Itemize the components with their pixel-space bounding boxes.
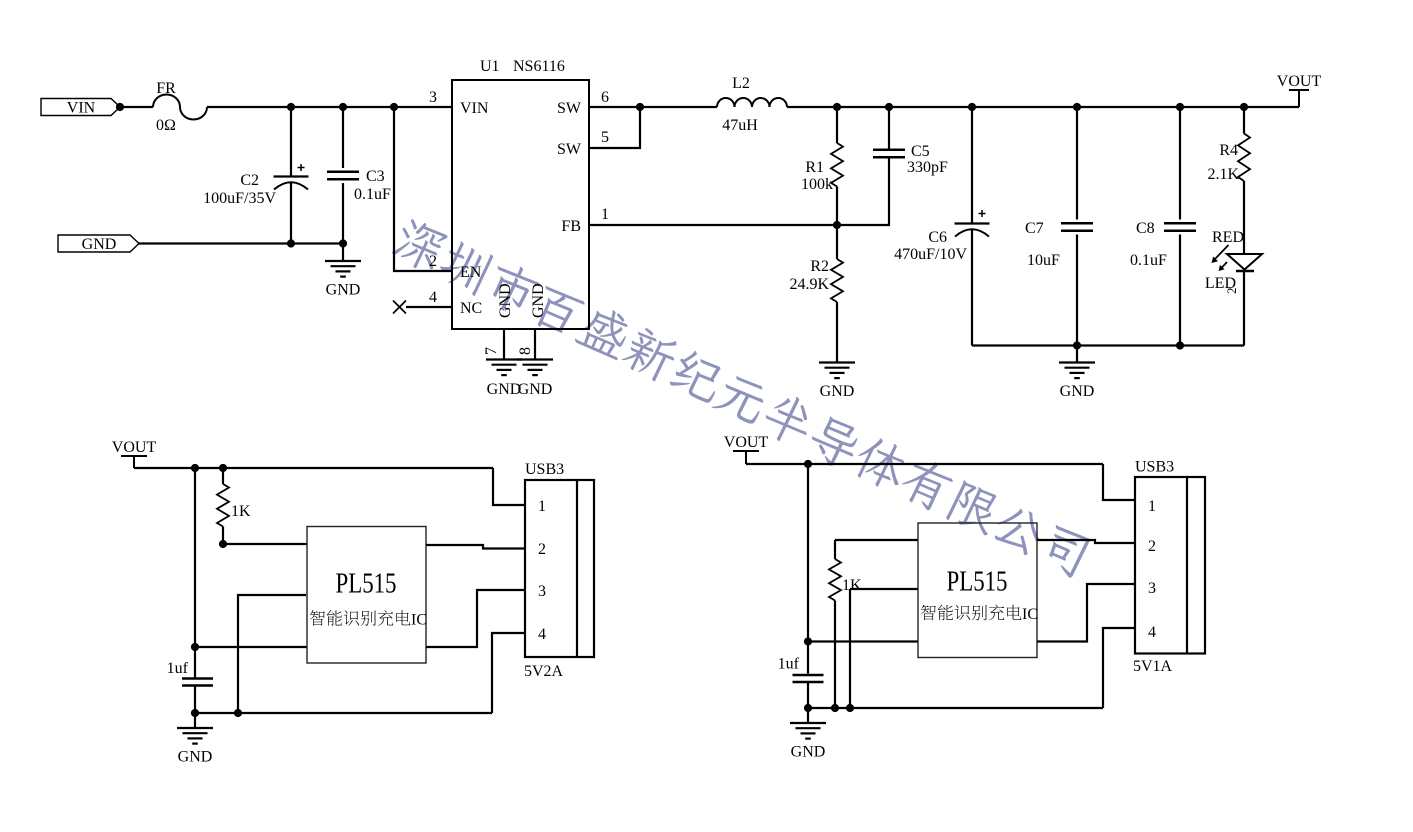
label 智能识别充电IC (left) bbox=[310, 610, 427, 628]
svg-text:C7: C7 bbox=[1025, 220, 1044, 237]
resistor R2 bbox=[831, 259, 843, 302]
svg-text:GND: GND bbox=[820, 383, 855, 400]
wire gnd rail bbox=[139, 242, 343, 244]
resistor R1 bbox=[831, 143, 843, 187]
svg-text:IC: IC bbox=[411, 612, 427, 629]
wire PL515 to gnd branch bbox=[238, 595, 306, 713]
wire PL515 mid pin bbox=[850, 588, 918, 590]
junction at VIN port bbox=[116, 103, 124, 111]
LED LED2 (diode) bbox=[1227, 254, 1262, 270]
wire PL515 to USB2 pin2 bbox=[1037, 540, 1135, 543]
wire VIN to fuse bbox=[120, 106, 153, 108]
svg-text:1K: 1K bbox=[231, 503, 251, 520]
junction mid gnd bbox=[846, 704, 854, 712]
svg-text:4: 4 bbox=[1148, 624, 1156, 641]
svg-text:R4: R4 bbox=[1219, 142, 1238, 159]
svg-text:1: 1 bbox=[538, 498, 546, 515]
capacitor 1uf (left) bbox=[182, 679, 213, 686]
ground symbol pin8 bbox=[517, 360, 553, 376]
connector USB3 (left, 5V2A) bbox=[525, 480, 594, 657]
wire FB bbox=[589, 224, 837, 226]
junction C3 bottom bbox=[339, 239, 347, 247]
wire bottom gnd rail left section bbox=[195, 712, 492, 714]
junction 1K bottom bbox=[219, 540, 227, 548]
junction pin branch right bbox=[804, 637, 812, 645]
fuse FR 0ohm bbox=[153, 94, 207, 119]
wire 1K bottom bbox=[222, 527, 224, 545]
svg-text:PL515: PL515 bbox=[947, 567, 1008, 598]
junction C8 bottom bbox=[1176, 341, 1184, 349]
wire gnd stem left section bbox=[194, 713, 196, 728]
wire gnd stem output bbox=[1076, 346, 1078, 363]
svg-text:GND: GND bbox=[497, 283, 514, 318]
junction C7 bottom bbox=[1073, 341, 1081, 349]
junction C3 top bbox=[339, 103, 347, 111]
svg-text:L2: L2 bbox=[732, 75, 750, 92]
wire EN branch bbox=[394, 107, 452, 271]
capacitor C7 bbox=[1061, 223, 1093, 231]
ground symbol output bbox=[1059, 363, 1095, 379]
svg-text:470uF/10V: 470uF/10V bbox=[894, 246, 967, 263]
svg-text:PL515: PL515 bbox=[336, 569, 397, 600]
svg-text:GND: GND bbox=[530, 283, 547, 318]
junction cap gnd bbox=[191, 709, 199, 717]
wire FB to R2 bbox=[836, 225, 838, 259]
wire 1K top stub bbox=[834, 540, 836, 559]
svg-text:1: 1 bbox=[601, 206, 609, 223]
ground symbol R2 bbox=[819, 363, 855, 379]
junction C2 top bbox=[287, 103, 295, 111]
svg-text:C6: C6 bbox=[928, 229, 947, 246]
wire vout rail left section bbox=[134, 467, 493, 469]
wire C8 to output gnd rail bbox=[1179, 235, 1181, 346]
capacitor C2 (polarized) bbox=[274, 175, 309, 177]
op-amp U1 NS6116 (IC body) bbox=[452, 80, 589, 329]
junction C6 top bbox=[968, 103, 976, 111]
wire mid pin to gnd bbox=[849, 589, 851, 708]
svg-text:2: 2 bbox=[538, 541, 546, 558]
ground symbol right section bbox=[790, 723, 826, 739]
svg-text:100k: 100k bbox=[801, 176, 833, 193]
wire pin7 to ground bbox=[503, 329, 505, 360]
capacitor C5 bbox=[873, 150, 905, 158]
wire pin8 to ground bbox=[534, 329, 536, 360]
ground symbol left section bbox=[177, 728, 213, 744]
port VIN bbox=[41, 99, 120, 116]
wire R2 to ground bbox=[836, 302, 838, 363]
wire PL515 to USB1 pin3 bbox=[426, 590, 525, 647]
wire cap bottom right bbox=[807, 682, 809, 708]
wire LED to output gnd rail bbox=[1243, 271, 1245, 346]
wire PL515 to USB1 pin2 bbox=[426, 545, 525, 549]
svg-text:FB: FB bbox=[561, 218, 581, 235]
svg-text:4: 4 bbox=[429, 289, 437, 306]
no-connect X on pin 4 bbox=[393, 301, 406, 314]
LED arrows bbox=[1214, 245, 1229, 260]
wire 1K to gnd rail bbox=[834, 601, 836, 709]
svg-text:R2: R2 bbox=[810, 258, 829, 275]
watermark 深圳市百盛新纪元半导体有限公司 bbox=[389, 214, 1092, 580]
wire fuse to U1 VIN bbox=[207, 106, 452, 108]
ground symbol input bbox=[325, 261, 361, 277]
svg-text:0Ω: 0Ω bbox=[156, 117, 176, 134]
wire NC stub bbox=[406, 306, 452, 308]
wire C3 to gnd rail bbox=[342, 183, 344, 244]
svg-text:2: 2 bbox=[1224, 288, 1239, 295]
svg-text:8: 8 bbox=[517, 347, 534, 355]
svg-text:VOUT: VOUT bbox=[1277, 73, 1322, 90]
svg-text:GND: GND bbox=[791, 744, 826, 761]
wire left vertical bbox=[194, 468, 196, 678]
svg-text:NS6116: NS6116 bbox=[513, 58, 565, 75]
wire to C3 bbox=[342, 107, 344, 168]
svg-text:GND: GND bbox=[518, 381, 553, 398]
svg-text:RED: RED bbox=[1212, 229, 1244, 246]
svg-text:GND: GND bbox=[487, 381, 522, 398]
wire pin5 SW bbox=[589, 107, 640, 148]
wire to C6 bbox=[971, 107, 973, 223]
junction R1 top bbox=[833, 103, 841, 111]
svg-text:VOUT: VOUT bbox=[724, 434, 769, 451]
IC PL515 (left) bbox=[307, 527, 426, 664]
wire gnd stem input bbox=[342, 244, 344, 262]
wire to USB1 pin4 bbox=[492, 633, 525, 713]
resistor 1K (left) bbox=[217, 484, 229, 527]
svg-text:6: 6 bbox=[601, 89, 609, 106]
wire to USB2 pin4 bbox=[1103, 628, 1135, 708]
svg-text:GND: GND bbox=[178, 749, 213, 766]
svg-text:47uH: 47uH bbox=[722, 117, 758, 134]
wire SW to L2 bbox=[640, 106, 717, 108]
wire bottom gnd rail right section bbox=[808, 707, 1103, 709]
svg-text:100uF/35V: 100uF/35V bbox=[203, 190, 276, 207]
wire to R 1K bbox=[222, 468, 224, 484]
wire pin6 SW bbox=[589, 106, 640, 108]
ground symbol pin7 bbox=[486, 360, 522, 376]
svg-text:7: 7 bbox=[483, 347, 500, 355]
junction C7 top bbox=[1073, 103, 1081, 111]
svg-text:R1: R1 bbox=[805, 159, 824, 176]
svg-text:C8: C8 bbox=[1136, 220, 1155, 237]
junction C8 top bbox=[1176, 103, 1184, 111]
capacitor C3 bbox=[327, 172, 359, 180]
wire gnd stem right section bbox=[807, 708, 809, 723]
wire cap bottom bbox=[194, 686, 196, 714]
svg-text:1uf: 1uf bbox=[167, 660, 189, 677]
wire 1K to PL515 bbox=[223, 543, 307, 545]
svg-text:VOUT: VOUT bbox=[112, 439, 157, 456]
svg-text:C3: C3 bbox=[366, 168, 385, 185]
wire PL515 to USB2 pin3 bbox=[1037, 584, 1135, 642]
wire to C2 bbox=[290, 107, 292, 176]
svg-text:VIN: VIN bbox=[67, 100, 96, 117]
wire output gnd rail bbox=[972, 344, 1244, 346]
wire to R1 bbox=[836, 107, 838, 143]
wire C7 to output gnd rail bbox=[1076, 235, 1078, 346]
wire to USB1 pin1 bbox=[493, 468, 525, 505]
wire R1 to FB bbox=[836, 187, 838, 226]
svg-text:1uf: 1uf bbox=[778, 656, 800, 673]
junction cap branch bbox=[191, 643, 199, 651]
svg-text:2: 2 bbox=[429, 253, 437, 270]
svg-text:3: 3 bbox=[538, 583, 546, 600]
wire C6 to output gnd rail bbox=[971, 229, 973, 346]
svg-text:0.1uF: 0.1uF bbox=[354, 186, 391, 203]
capacitor 1uf (right) bbox=[793, 675, 824, 682]
svg-text:USB3: USB3 bbox=[525, 461, 564, 478]
svg-text:330pF: 330pF bbox=[907, 159, 948, 176]
wire C5 to FB bbox=[837, 157, 889, 225]
resistor R4 bbox=[1238, 134, 1250, 182]
svg-text:GND: GND bbox=[326, 282, 361, 299]
svg-text:U1: U1 bbox=[480, 58, 500, 75]
junction SW bbox=[636, 103, 644, 111]
svg-text:1K: 1K bbox=[842, 577, 862, 594]
svg-text:5: 5 bbox=[601, 129, 609, 146]
svg-text:24.9K: 24.9K bbox=[789, 276, 829, 293]
svg-text:FR: FR bbox=[156, 80, 176, 97]
wire right-section vertical bbox=[807, 464, 809, 674]
svg-text:5V2A: 5V2A bbox=[524, 663, 564, 680]
wire to PL515 right pin bbox=[808, 640, 918, 642]
port GND input bbox=[58, 235, 139, 252]
junction right rail bbox=[804, 460, 812, 468]
wire to C5 bbox=[888, 107, 890, 150]
junction FB bbox=[833, 221, 841, 229]
svg-text:1: 1 bbox=[1148, 498, 1156, 515]
svg-text:2.1K: 2.1K bbox=[1207, 166, 1239, 183]
junction C2 bottom bbox=[287, 239, 295, 247]
svg-text:3: 3 bbox=[1148, 580, 1156, 597]
svg-text:3: 3 bbox=[429, 89, 437, 106]
wire C2 to gnd rail bbox=[290, 182, 292, 244]
svg-text:5V1A: 5V1A bbox=[1133, 658, 1173, 675]
wire 1K top to PL515 bbox=[835, 539, 918, 541]
plus sign C6 bbox=[979, 210, 986, 217]
svg-text:4: 4 bbox=[538, 626, 546, 643]
svg-text:GND: GND bbox=[82, 236, 117, 253]
plus sign C2 bbox=[298, 164, 305, 171]
IC PL515 (right) bbox=[918, 523, 1037, 658]
svg-text:C5: C5 bbox=[911, 143, 930, 160]
svg-text:SW: SW bbox=[557, 100, 582, 117]
junction gnd branch bbox=[234, 709, 242, 717]
wire to USB2 pin1 bbox=[1103, 464, 1135, 500]
wire to C8 bbox=[1179, 107, 1181, 220]
svg-text:2: 2 bbox=[1148, 538, 1156, 555]
svg-text:SW: SW bbox=[557, 141, 582, 158]
junction R4 top bbox=[1240, 103, 1248, 111]
svg-text:0.1uF: 0.1uF bbox=[1130, 252, 1167, 269]
junction 1K gnd bbox=[831, 704, 839, 712]
junction C5 top bbox=[885, 103, 893, 111]
svg-text:C2: C2 bbox=[240, 172, 259, 189]
capacitor C8 bbox=[1164, 223, 1196, 231]
wire L2 to VOUT rail bbox=[787, 106, 1299, 108]
connector USB3 (right, 5V1A) bbox=[1135, 477, 1205, 654]
junction EN branch bbox=[390, 103, 398, 111]
svg-text:IC: IC bbox=[1022, 606, 1038, 623]
junction left rail bbox=[191, 464, 199, 472]
junction cap gnd right bbox=[804, 704, 812, 712]
resistor 1K (right) bbox=[829, 559, 841, 601]
label 智能识别充电IC (right) bbox=[921, 605, 1038, 623]
svg-text:EN: EN bbox=[460, 264, 482, 281]
wire R4 to LED bbox=[1243, 181, 1245, 253]
svg-text:NC: NC bbox=[460, 300, 482, 317]
svg-text:USB3: USB3 bbox=[1135, 459, 1174, 476]
junction 1K top bbox=[219, 464, 227, 472]
inductor L2 bbox=[717, 98, 787, 107]
wire to PL515 pin bbox=[195, 646, 307, 648]
svg-text:10uF: 10uF bbox=[1027, 252, 1060, 269]
capacitor C6 (polarized) bbox=[955, 222, 990, 224]
wire to R4 bbox=[1243, 107, 1245, 134]
svg-text:VIN: VIN bbox=[460, 100, 489, 117]
wire to C7 bbox=[1076, 107, 1078, 220]
svg-text:GND: GND bbox=[1060, 383, 1095, 400]
wire vout rail right section bbox=[746, 463, 1103, 465]
